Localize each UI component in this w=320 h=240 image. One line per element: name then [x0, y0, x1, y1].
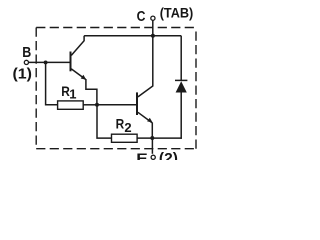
transistor Q2 emitter	[138, 112, 152, 122]
svg-text:C: C	[137, 8, 146, 25]
wire node-B down to R1	[46, 62, 58, 104]
transistor Q1 base bar	[70, 52, 72, 72]
wire C terminal down to rail	[152, 21, 154, 36]
resistor R1 body	[58, 101, 84, 109]
diode D1 cathode bar	[175, 79, 187, 81]
resistor R2 body	[112, 134, 138, 142]
transistor Q1 emitter	[71, 69, 85, 80]
top rail wire (collector rail)	[84, 35, 181, 37]
node E junction dot	[150, 136, 154, 140]
terminal E circle	[151, 155, 155, 159]
diode D1 triangle (anode, pointing up)	[176, 81, 187, 92]
wire Q1 emitter step to node N1	[86, 79, 97, 105]
resistor R1 label	[61, 83, 76, 101]
svg-text:E: E	[136, 150, 148, 160]
wire node E down to terminal E	[151, 138, 153, 154]
terminal B circle	[24, 60, 28, 64]
wire Q2 emitter down to node E	[151, 122, 153, 138]
package outline top dashed edge	[36, 27, 196, 29]
wire node N1 down to R2	[97, 105, 112, 138]
wire B to Q1 base	[29, 61, 70, 63]
transistor Q1 emitter arrowhead	[81, 75, 87, 80]
svg-text:2: 2	[124, 120, 131, 135]
transistor Q2 base bar	[136, 92, 138, 115]
wire node N1 to Q2 base	[97, 104, 136, 106]
node B junction dot	[44, 60, 48, 64]
transistor Q2 collector	[138, 36, 153, 97]
svg-text:(TAB): (TAB)	[160, 6, 194, 21]
node C junction dot	[151, 34, 155, 38]
package outline left dashed edge	[35, 28, 37, 149]
transistor Q2 emitter arrowhead	[147, 118, 153, 123]
svg-text:B: B	[22, 45, 31, 61]
svg-text:1: 1	[69, 86, 76, 101]
diode D1 anode wire down to bottom rail	[180, 93, 182, 139]
svg-text:(2): (2)	[159, 150, 178, 160]
package outline right dashed edge	[195, 28, 197, 149]
transistor Q1 collector	[71, 36, 84, 56]
diode D1 cathode wire from top rail	[180, 36, 182, 80]
wire R2 right along bottom rail to diode	[137, 137, 182, 139]
terminal C circle	[151, 16, 155, 20]
resistor R2 label	[116, 116, 132, 135]
package outline bottom dashed edge	[36, 148, 196, 150]
wire R1 right to node N1	[83, 104, 97, 106]
node N1 junction dot	[95, 103, 99, 107]
svg-text:R: R	[116, 116, 125, 132]
svg-text:(1): (1)	[13, 66, 33, 83]
